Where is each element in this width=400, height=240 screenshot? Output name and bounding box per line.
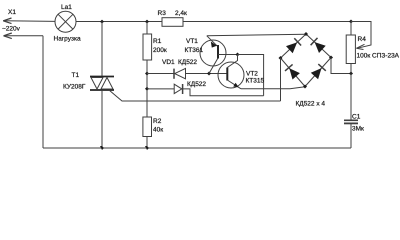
node junction R1 top [145,20,149,24]
svg-text:Нагрузка: Нагрузка [54,36,81,43]
bridge diode bottom-left [285,64,300,79]
node junction triac top [100,20,104,24]
node junction VD1 row [145,72,149,76]
wire X1 lower to left vertical [4,35,44,37]
svg-text:C1: C1 [352,114,361,121]
wire VD1 to VT2 base [186,73,228,75]
svg-text:R4: R4 [358,36,367,43]
wire R1 bottom to R2 top [146,60,148,117]
svg-text:КД522: КД522 [178,59,197,66]
bridge diode top-left [286,38,301,53]
svg-text:КД522: КД522 [187,81,206,88]
wire C1 bottom [350,123,352,148]
node junction rail R4 [349,20,353,24]
svg-text:КТ361: КТ361 [185,47,204,54]
wire bridge left vertex down to gate rail [280,58,282,101]
diode VD1 (points left) [174,68,186,78]
svg-text:VD1: VD1 [162,59,175,66]
svg-text:VT2: VT2 [246,71,258,78]
svg-text:R3: R3 [158,10,167,17]
svg-text:40к: 40к [153,127,163,134]
svg-text:~220v: ~220v [2,26,21,33]
svg-text:3Мк: 3Мк [352,126,364,133]
wire top rail R3 to R4 node [183,21,351,23]
wire R4 top stub [350,22,352,36]
wire R4 bottom [350,64,352,74]
svg-text:2,4к: 2,4к [175,10,187,17]
svg-text:VT1: VT1 [186,38,198,45]
node bridge bottom [303,85,307,89]
node junction VT1 base / VT2 collector [236,53,240,57]
connector X1 arrow upper [3,18,11,24]
resistor R1 [143,34,152,60]
wire R4 wiper loop [351,22,371,49]
node bridge right [329,56,333,60]
triac T1 [90,77,114,91]
transistor VT2 [218,55,244,89]
svg-text:100к СПЗ-23А: 100к СПЗ-23А [357,53,400,60]
resistor R2 [143,117,152,137]
node junction diode2 row [145,87,149,91]
wire bottom rail [43,147,351,149]
wire triac vertical top [101,22,103,77]
wire diode2 row left [147,88,174,90]
wire triac vertical bottom [101,90,103,148]
svg-text:R1: R1 [153,38,162,45]
wire base node to right vertical [238,55,264,96]
capacitor C1 [344,120,358,123]
svg-text:Т1: Т1 [72,72,80,79]
svg-text:R2: R2 [153,118,162,125]
wire bridge right vertex to R4 bottom node [331,58,351,74]
node junction triac bottom [100,146,104,150]
wire X1 to lamp [3,20,55,23]
wire VT1 emitter to bridge top [207,34,306,36]
potentiometer R4 [346,35,355,64]
bridge diode top-right [311,38,326,53]
wire VD1 row left [147,73,174,75]
wire top rail lamp to R3 [76,21,162,23]
diode VD2 (points right) [174,84,182,94]
wire diode2 to corner [183,89,264,96]
wire R1 branch [146,22,148,35]
lamp La1 [55,11,76,32]
transistor VT1 [200,36,238,74]
R4 wiper arrowhead [356,44,364,49]
wire node to C1 [350,74,352,121]
svg-text:200к: 200к [153,47,167,54]
wire R2 bottom [146,137,148,149]
wire triac gate [109,90,281,101]
bridge rectifier diamond wires [281,34,332,87]
svg-text:КТ315: КТ315 [246,78,265,85]
wire VT2 emitter rail to bridge bottom [241,87,305,89]
bridge diode bottom-right [311,64,326,79]
node bridge top [304,32,308,36]
svg-text:КД522 х 4: КД522 х 4 [296,101,326,108]
svg-text:La1: La1 [61,4,72,11]
connector X1 arrow lower [4,33,12,39]
wire left vertical [42,36,44,148]
svg-text:КУ208Г: КУ208Г [63,84,86,91]
node bridge left [279,56,283,60]
node junction VT1 collector [207,72,211,76]
svg-text:X1: X1 [8,9,16,16]
node junction R2 bottom [145,146,149,150]
node junction R4 bottom / C1 [349,72,353,76]
resistor R3 [162,18,183,27]
